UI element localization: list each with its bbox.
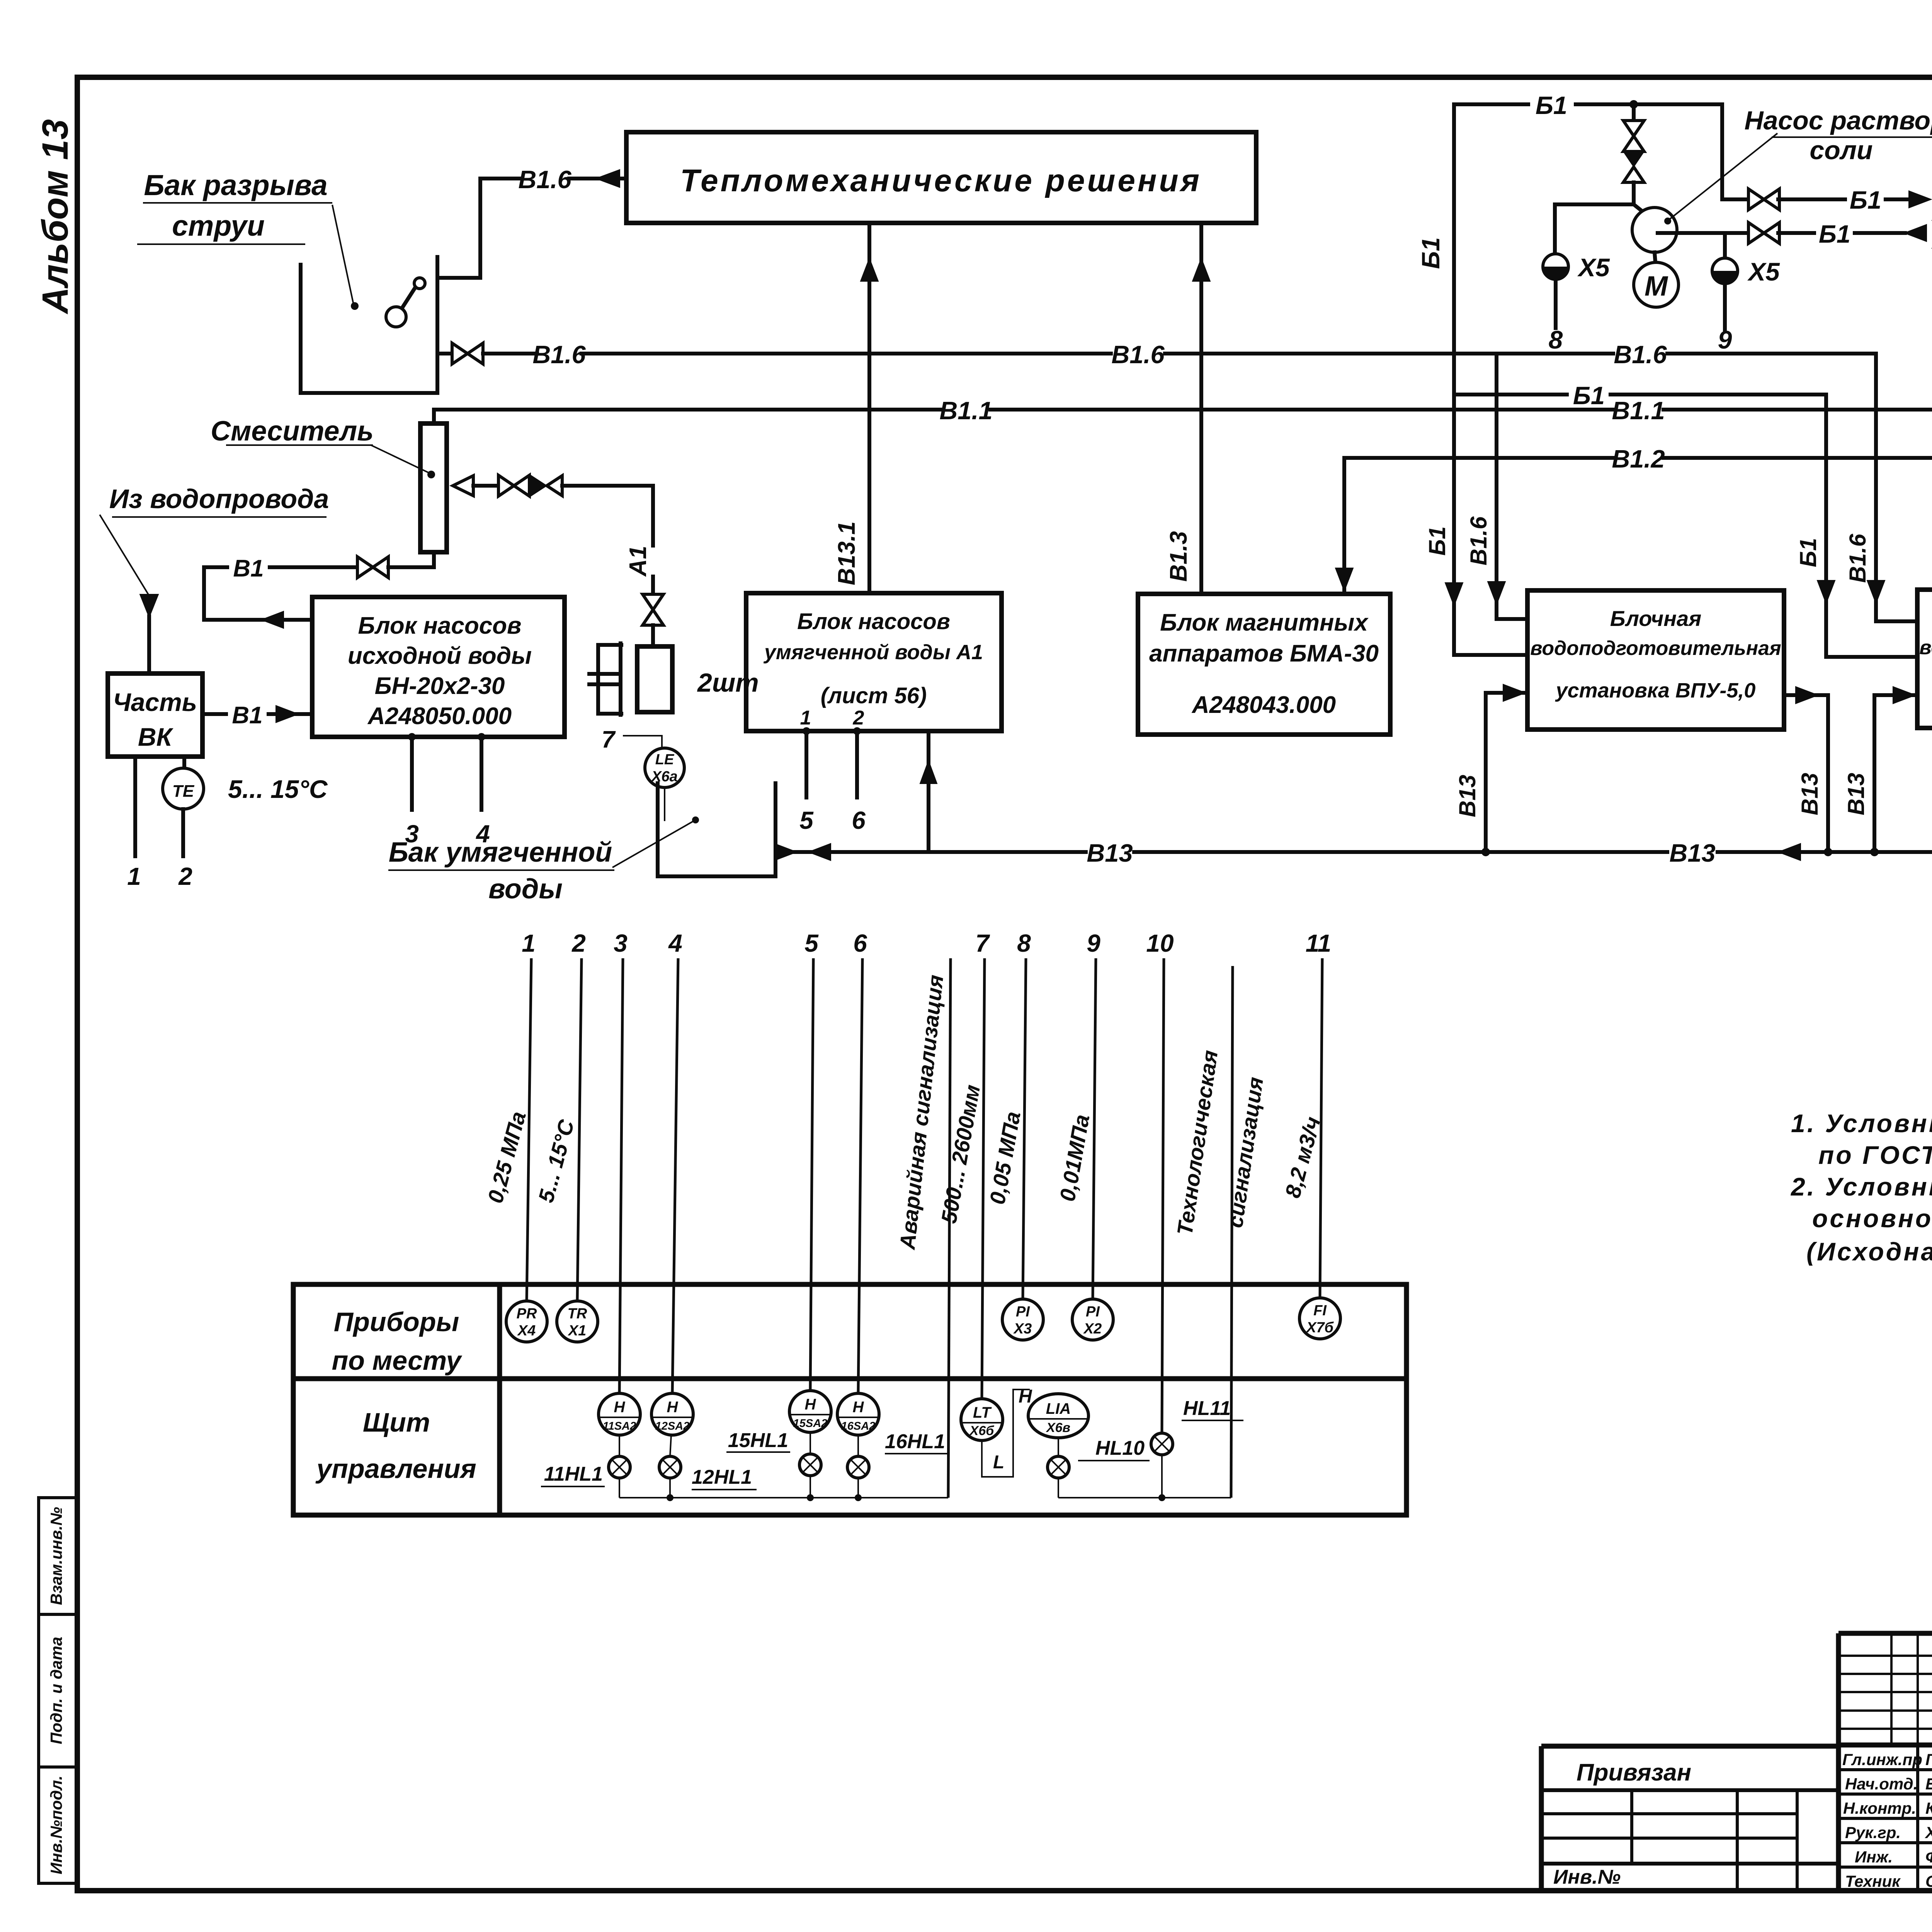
svg-text:7: 7 xyxy=(602,726,616,753)
signal line 4 xyxy=(672,958,678,1393)
svg-text:Насос раствора: Насос раствора xyxy=(1745,106,1932,135)
block Часть ВК xyxy=(108,673,202,757)
svg-text:Из водопровода: Из водопровода xyxy=(109,484,329,514)
wire tank outlet to riser xyxy=(437,179,522,278)
instrument PI Х2 xyxy=(1072,1299,1113,1340)
wire А1 xyxy=(562,486,653,546)
svg-text:1: 1 xyxy=(127,862,141,890)
svg-text:В1.6: В1.6 xyxy=(1111,340,1165,369)
svg-text:Н: Н xyxy=(614,1399,626,1416)
instrument H 11SA2 xyxy=(599,1393,640,1435)
wire В1.6 branch to ВПУ2 xyxy=(1876,354,1917,621)
svg-text:В1.1: В1.1 xyxy=(1612,396,1665,425)
svg-text:LE: LE xyxy=(655,752,675,768)
svg-text:Взам.инв.№: Взам.инв.№ xyxy=(47,1507,65,1605)
tank Бак разрыва струи xyxy=(301,257,437,393)
svg-text:Х6б: Х6б xyxy=(969,1423,995,1438)
name rows xyxy=(1838,1768,1932,1771)
wire into ВК box xyxy=(147,616,151,673)
instrument LIA Х6в xyxy=(1028,1394,1088,1438)
signal line 8 xyxy=(1023,958,1026,1299)
block Блок насосов умягченной воды А1 xyxy=(746,593,1002,731)
svg-text:5: 5 xyxy=(799,806,814,834)
svg-text:Н: Н xyxy=(805,1396,816,1413)
svg-text:9: 9 xyxy=(1087,929,1100,957)
wire В13 horizontal xyxy=(776,850,1086,854)
lamp bus right xyxy=(1058,1497,1231,1498)
label: Бак разрыва струи xyxy=(137,169,359,310)
привязан block xyxy=(1541,1746,1838,1891)
wire В1 from ВК to pump block xyxy=(202,712,226,716)
svg-text:Блочная: Блочная xyxy=(1610,606,1701,631)
svg-text:Б1: Б1 xyxy=(1795,538,1821,567)
lamp 16HL1 xyxy=(847,1456,869,1478)
svg-text:7: 7 xyxy=(975,929,990,957)
arrow left В1.6 xyxy=(596,170,620,187)
svg-text:2шт: 2шт xyxy=(697,668,759,697)
lamp 12HL1 xyxy=(659,1456,681,1478)
signal line 7 xyxy=(982,958,985,1399)
valve stack on Б1 to pump xyxy=(1632,104,1636,128)
svg-text:Семаева: Семаева xyxy=(1925,1872,1932,1890)
svg-text:Бак умягченной: Бак умягченной xyxy=(389,837,612,868)
svg-text:А1: А1 xyxy=(625,546,651,577)
instrument H 16SA2 xyxy=(837,1393,879,1435)
svg-text:11SA2: 11SA2 xyxy=(603,1420,636,1432)
svg-text:ВК: ВК xyxy=(138,723,174,751)
svg-text:11: 11 xyxy=(1306,929,1331,957)
svg-text:Х1: Х1 xyxy=(568,1323,586,1339)
svg-text:Привязан: Привязан xyxy=(1577,1759,1691,1786)
svg-text:струи: струи xyxy=(172,209,265,242)
svg-text:5... 15°С: 5... 15°С xyxy=(228,775,328,803)
wire Б1 top horizontal xyxy=(1454,102,1528,106)
left stamp cells xyxy=(39,1498,77,1883)
svg-text:водоподготовительная: водоподготовительная xyxy=(1530,637,1781,660)
svg-text:В13: В13 xyxy=(1669,839,1715,867)
svg-text:по месту: по месту xyxy=(332,1345,463,1376)
svg-text:PI: PI xyxy=(1016,1304,1030,1320)
svg-text:TR: TR xyxy=(568,1306,587,1322)
salt dissolver 2шт xyxy=(589,643,759,715)
signal line 5 xyxy=(810,958,813,1391)
LT step H L xyxy=(982,1389,1030,1477)
svg-text:Смеситель: Смеситель xyxy=(211,416,374,447)
svg-text:основной комплект чертежей: основной комплект чертежей марки ВП альб… xyxy=(1812,1204,1932,1233)
svg-text:В1.3: В1.3 xyxy=(1165,531,1192,582)
svg-text:Н: Н xyxy=(667,1399,679,1416)
signal line 2 xyxy=(577,958,582,1301)
svg-text:Б1: Б1 xyxy=(1819,220,1850,248)
svg-text:управления: управления xyxy=(315,1454,476,1484)
svg-text:Х3: Х3 xyxy=(1013,1321,1032,1337)
lamp 11HL1 xyxy=(609,1456,630,1478)
svg-text:Гусева: Гусева xyxy=(1925,1750,1932,1769)
svg-text:В1: В1 xyxy=(233,555,264,582)
label Из водопровода xyxy=(100,484,329,597)
instrument X5 left xyxy=(1553,204,1557,253)
svg-text:В13: В13 xyxy=(1087,839,1133,867)
svg-text:соли: соли xyxy=(1810,136,1872,165)
block ВПУ-5,0 #1 xyxy=(1527,590,1784,730)
wire pump discharge Б1 xyxy=(1658,231,1750,235)
svg-text:В1.1: В1.1 xyxy=(939,396,992,425)
svg-text:Н: Н xyxy=(1019,1386,1032,1407)
svg-text:16HL1: 16HL1 xyxy=(885,1430,945,1453)
svg-text:8: 8 xyxy=(1017,929,1031,957)
mixer column xyxy=(420,423,447,552)
svg-text:В13.1: В13.1 xyxy=(833,521,860,585)
svg-text:HL11: HL11 xyxy=(1183,1397,1231,1420)
svg-text:В13: В13 xyxy=(1454,775,1480,817)
svg-text:15SA2: 15SA2 xyxy=(793,1417,828,1430)
svg-text:Корикова: Корикова xyxy=(1925,1799,1932,1817)
svg-text:Б1: Б1 xyxy=(1424,526,1450,556)
svg-text:В13: В13 xyxy=(1843,773,1869,815)
svg-text:Инв.№подл.: Инв.№подл. xyxy=(47,1776,65,1874)
wire В1.2 drop to БМА xyxy=(1342,458,1346,594)
svg-text:по ГОСТ 21.404-85.: по ГОСТ 21.404-85. xyxy=(1818,1141,1932,1169)
svg-text:HL10: HL10 xyxy=(1095,1437,1145,1459)
instrument PI Х3 xyxy=(1002,1299,1043,1340)
instrument TE xyxy=(163,768,204,809)
signal line 6 xyxy=(858,958,862,1393)
svg-text:водоподготовительная: водоподготовительная xyxy=(1919,636,1932,659)
motor M xyxy=(1655,252,1655,262)
pump Насос раствора соли xyxy=(1632,207,1677,252)
rotated signal labels xyxy=(483,974,1325,1251)
wire В1.2 horizontal xyxy=(1344,456,1613,460)
signal line 1 xyxy=(527,958,531,1301)
instrument H 12SA2 xyxy=(651,1393,693,1435)
svg-text:умягченной воды А1: умягченной воды А1 xyxy=(763,641,983,664)
block Блок магнитных аппаратов БМА-30 xyxy=(1138,594,1390,735)
svg-text:Б1: Б1 xyxy=(1536,91,1567,119)
wire tank drain В1.6 xyxy=(437,352,452,355)
svg-text:10: 10 xyxy=(1146,929,1173,957)
tank Бак умягченной воды xyxy=(658,783,776,876)
wire Б1 to bunker xyxy=(1748,189,1779,210)
svg-text:Б1: Б1 xyxy=(1417,237,1445,269)
svg-text:А248043.000: А248043.000 xyxy=(1191,692,1336,718)
svg-text:2. Условные обозначения труб: 2. Условные обозначения трубопроводов см… xyxy=(1790,1172,1932,1201)
svg-text:5: 5 xyxy=(804,929,819,957)
svg-text:А248050.000: А248050.000 xyxy=(367,703,512,730)
instrument PR Х4 xyxy=(506,1301,547,1342)
svg-text:Б1: Б1 xyxy=(1850,186,1881,214)
svg-text:Х5: Х5 xyxy=(1747,257,1780,286)
svg-text:аппаратов БМА-30: аппаратов БМА-30 xyxy=(1149,640,1379,667)
svg-text:6: 6 xyxy=(852,806,866,834)
valve В1 xyxy=(357,557,388,578)
wire pump return up to mixer В1 xyxy=(204,567,312,620)
svg-text:исходной воды: исходной воды xyxy=(348,643,532,669)
wire В1.6 into Тепломех xyxy=(569,177,626,180)
svg-text:L: L xyxy=(993,1452,1004,1473)
svg-text:Часть: Часть xyxy=(113,688,197,716)
svg-text:Харитонова: Харитонова xyxy=(1925,1823,1932,1842)
block ВПУ-5,0 #2 xyxy=(1917,590,1932,728)
instrument LT Х6б xyxy=(961,1399,1003,1440)
instrument LE Х6а xyxy=(645,748,684,787)
svg-text:11HL1: 11HL1 xyxy=(544,1463,603,1485)
lamp labels xyxy=(541,1397,1243,1490)
svg-text:2: 2 xyxy=(853,707,864,729)
lamp 15HL1 xyxy=(799,1454,821,1476)
pins 3 4 xyxy=(408,733,416,741)
svg-text:установка ВПУ-5,0: установка ВПУ-5,0 xyxy=(1555,679,1756,702)
wire Б1 horizontal xyxy=(1454,393,1567,396)
wire В13 into ВПУ1 xyxy=(1486,693,1526,852)
signal numbers xyxy=(522,929,1331,957)
svg-text:Блок магнитных: Блок магнитных xyxy=(1160,609,1369,636)
wire Б1 main vertical xyxy=(1454,104,1527,655)
svg-text:Борисов: Борисов xyxy=(1925,1775,1932,1793)
svg-text:ТЕ: ТЕ xyxy=(172,782,195,801)
instrument TR Х1 xyxy=(557,1301,598,1342)
upper small grid xyxy=(1838,1656,1932,1729)
svg-text:1: 1 xyxy=(800,707,811,729)
mixer side inlet with open arrow xyxy=(453,476,473,496)
svg-text:Блок насосов: Блок насосов xyxy=(358,612,521,639)
svg-text:Альбом 13: Альбом 13 xyxy=(35,119,76,314)
svg-text:Х5: Х5 xyxy=(1577,253,1610,282)
svg-text:Рук.гр.: Рук.гр. xyxy=(1845,1823,1901,1842)
svg-text:8: 8 xyxy=(1549,325,1563,354)
signal line tech xyxy=(1231,966,1233,1498)
svg-text:6: 6 xyxy=(853,929,867,957)
block Тепломеханические решения xyxy=(626,132,1256,223)
svg-text:Бак разрыва: Бак разрыва xyxy=(144,169,327,201)
svg-text:Подп. и дата: Подп. и дата xyxy=(47,1637,65,1744)
wire В13.1 Тепломех to А1 block xyxy=(867,223,871,593)
svg-text:В1.6: В1.6 xyxy=(1466,516,1492,565)
svg-text:В13: В13 xyxy=(1797,773,1823,815)
svg-text:В1.6: В1.6 xyxy=(1614,340,1667,369)
svg-text:PR: PR xyxy=(517,1306,537,1322)
svg-text:Нач.отд.: Нач.отд. xyxy=(1845,1775,1918,1793)
svg-text:4: 4 xyxy=(668,929,682,957)
svg-text:LIA: LIA xyxy=(1046,1400,1071,1417)
svg-text:Б1: Б1 xyxy=(1573,381,1605,410)
instrument FI Х7б xyxy=(1299,1298,1340,1339)
valve drain xyxy=(452,343,483,364)
signal line 10 xyxy=(1162,958,1164,1433)
svg-text:Х4: Х4 xyxy=(517,1323,536,1339)
float valve xyxy=(414,278,425,289)
svg-text:2: 2 xyxy=(178,862,192,890)
svg-text:В1.2: В1.2 xyxy=(1612,445,1665,473)
svg-text:LT: LT xyxy=(973,1404,992,1421)
arrow down into ВК xyxy=(140,594,158,617)
label Смеситель xyxy=(211,416,435,478)
svg-text:9: 9 xyxy=(1718,325,1732,354)
svg-text:БН-20х2-30: БН-20х2-30 xyxy=(375,673,505,699)
instrument H 15SA2 xyxy=(789,1391,831,1432)
wire mixer top to В1.1 xyxy=(432,410,436,423)
signal line 3 xyxy=(619,958,623,1393)
lamp bus left xyxy=(619,1497,948,1498)
svg-text:12HL1: 12HL1 xyxy=(692,1466,752,1488)
svg-text:Инв.№: Инв.№ xyxy=(1553,1866,1621,1888)
wire В1.6 long xyxy=(582,352,1111,355)
svg-text:4: 4 xyxy=(475,820,490,848)
wire В1.3 Тепломех to БМА xyxy=(1199,223,1203,594)
svg-text:Х6а: Х6а xyxy=(651,769,678,785)
svg-text:В1.6: В1.6 xyxy=(1845,534,1871,583)
valve pair on А1 line xyxy=(498,475,529,496)
svg-text:Х2: Х2 xyxy=(1083,1321,1102,1337)
instrument X5 right xyxy=(1723,233,1727,259)
svg-text:16SA2: 16SA2 xyxy=(841,1420,876,1432)
svg-text:М: М xyxy=(1645,271,1668,302)
svg-text:Щит: Щит xyxy=(363,1407,430,1437)
svg-text:3: 3 xyxy=(614,929,628,957)
svg-text:1. Условные обозначения приб: 1. Условные обозначения приборов приняты xyxy=(1791,1109,1932,1138)
pins 1 2 below ВК xyxy=(133,757,137,856)
svg-text:(Исходная вода с содержанием: (Исходная вода с содержанием железа до 1… xyxy=(1806,1237,1932,1266)
svg-text:2: 2 xyxy=(571,929,586,957)
svg-text:Приборы: Приборы xyxy=(334,1307,459,1337)
svg-text:Н: Н xyxy=(853,1399,864,1416)
signal line avar xyxy=(948,958,951,1498)
block Блок насосов исходной воды xyxy=(312,597,565,737)
svg-text:Техник: Техник xyxy=(1845,1872,1901,1890)
wire В13 into ВПУ2 xyxy=(1874,695,1915,852)
wire В1.1 xyxy=(434,408,942,412)
svg-text:FI: FI xyxy=(1313,1303,1327,1319)
svg-text:(лист 56): (лист 56) xyxy=(821,683,927,708)
svg-text:В1: В1 xyxy=(232,702,262,729)
wire В13 up into А1 block xyxy=(927,731,930,852)
wire В1.6 branch to ВПУ1 xyxy=(1497,354,1527,619)
signal line 9 xyxy=(1093,958,1096,1299)
svg-text:Инж.: Инж. xyxy=(1855,1848,1893,1866)
outer xyxy=(1838,1631,1932,1636)
svg-text:1: 1 xyxy=(522,929,536,957)
svg-text:12SA2: 12SA2 xyxy=(655,1420,690,1432)
svg-text:Блок насосов: Блок насосов xyxy=(797,609,950,634)
svg-text:В1.6: В1.6 xyxy=(532,340,586,369)
svg-text:PI: PI xyxy=(1086,1304,1100,1320)
svg-text:Фетисова: Фетисова xyxy=(1925,1848,1932,1866)
valve А1 vertical xyxy=(643,594,663,625)
svg-text:В1.6: В1.6 xyxy=(518,165,571,194)
svg-text:Н.контр.: Н.контр. xyxy=(1843,1799,1916,1817)
lamp HL11 xyxy=(1151,1433,1173,1455)
pins 5 6 xyxy=(803,727,810,735)
svg-text:воды: воды xyxy=(488,874,563,905)
signal line 11 xyxy=(1320,958,1322,1298)
lamp HL10 xyxy=(1048,1456,1069,1478)
svg-text:15HL1: 15HL1 xyxy=(728,1429,788,1452)
wire ВПУ1 output to В13 xyxy=(1784,695,1828,852)
svg-text:Х6в: Х6в xyxy=(1046,1420,1070,1435)
svg-text:Х7б: Х7б xyxy=(1306,1320,1334,1336)
svg-text:Гл.инж.пр: Гл.инж.пр xyxy=(1842,1750,1922,1769)
svg-text:Тепломеханические решения: Тепломеханические решения xyxy=(680,163,1202,198)
svg-text:3: 3 xyxy=(405,820,419,848)
